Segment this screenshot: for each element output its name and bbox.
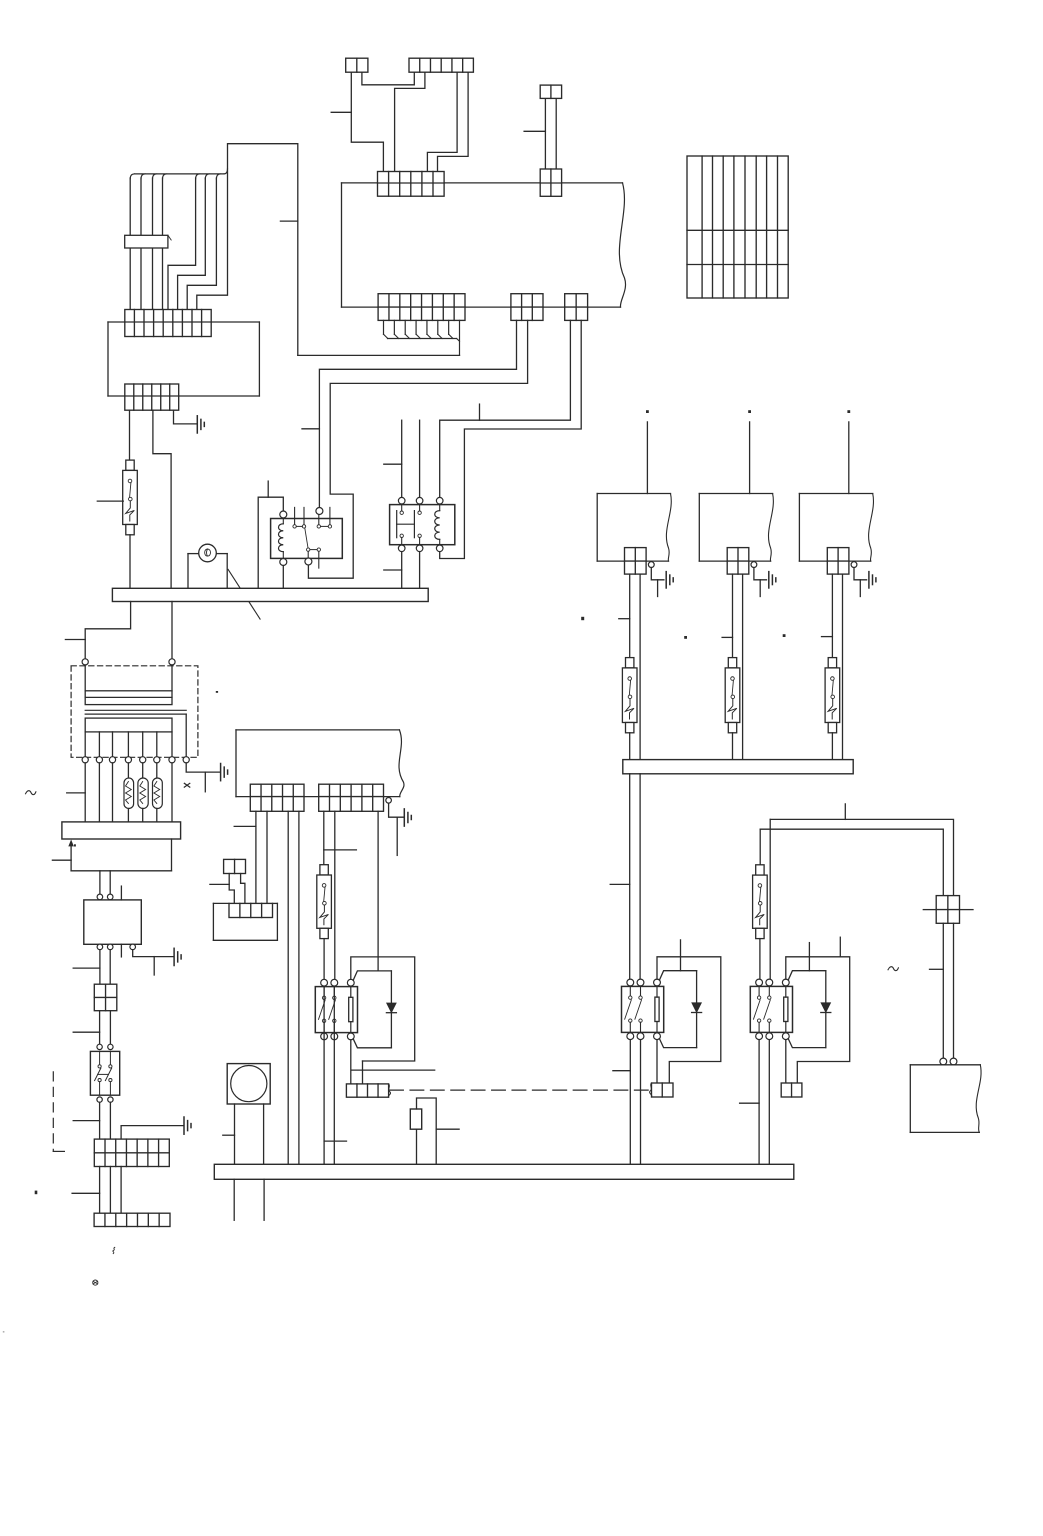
wire <box>351 1040 435 1084</box>
wire stub <box>384 569 402 571</box>
connector J6 (8-pin, 2-row) on U1 bottom <box>378 294 465 321</box>
shield box (dashed) <box>71 666 198 758</box>
wire <box>377 811 379 970</box>
terminal grid block (9x3) <box>687 156 788 298</box>
connector J1 (2-pin) <box>346 58 368 72</box>
wire <box>99 1011 101 1044</box>
ECU block U1 (torn right edge) <box>342 183 626 307</box>
wire <box>241 874 245 904</box>
wire stub <box>73 1031 99 1033</box>
wire (outer loop) <box>657 957 721 1083</box>
connector J9 (9-pin, 2-row) <box>125 310 211 337</box>
terminal <box>305 558 312 565</box>
ground <box>404 809 411 826</box>
wire <box>109 871 111 894</box>
wire <box>287 811 289 1164</box>
wire <box>427 72 457 171</box>
wire <box>395 72 425 171</box>
wire <box>842 574 844 760</box>
wire <box>324 986 346 1164</box>
fuse F4 <box>725 658 740 733</box>
load module C (torn right edge) <box>799 494 873 562</box>
wire (staircase 3) <box>187 178 216 310</box>
terminal <box>108 1044 113 1049</box>
fuse F2 <box>317 865 332 939</box>
connector (2x2) on module C <box>827 548 849 575</box>
wire to ground <box>754 568 767 597</box>
wire stub <box>722 636 732 638</box>
wire stub <box>331 111 351 113</box>
dot <box>581 617 584 620</box>
wire (fan to bus A) <box>298 354 460 356</box>
resistor R1 <box>124 763 134 822</box>
small mark <box>93 1280 98 1285</box>
connector J21 (2-pin) <box>781 1083 802 1097</box>
wire <box>112 763 114 822</box>
fuse F1 <box>123 460 138 535</box>
wire <box>109 1011 111 1044</box>
module box B3 <box>213 903 277 940</box>
secondary leads <box>85 714 186 757</box>
wire <box>98 763 100 822</box>
transformer T1 core <box>85 710 186 714</box>
wire <box>229 874 234 904</box>
wire <box>848 422 850 494</box>
wire <box>99 871 101 894</box>
wire <box>109 1167 111 1214</box>
wire <box>749 422 751 494</box>
wire <box>639 574 641 760</box>
wire stub <box>233 1179 235 1220</box>
wire <box>640 1040 642 1165</box>
wire (K1 feed) <box>258 481 283 588</box>
wire (fuse F2 feed) <box>324 811 357 864</box>
tilde (AC) mark <box>26 791 36 795</box>
connector J20 (2-pin, torn edge) <box>650 1083 673 1097</box>
wire stub <box>822 636 833 638</box>
wire (staircase 2) <box>178 178 206 310</box>
harness cap <box>130 169 227 180</box>
wire <box>266 811 268 903</box>
connector J15 (6-pin, 2-row) on U2 <box>319 784 384 811</box>
terminal <box>940 1058 947 1065</box>
wire <box>732 574 734 658</box>
terminal <box>130 944 136 950</box>
bus bar A <box>112 588 428 601</box>
ground <box>221 764 228 781</box>
connector J18 (4-pin, torn edge) <box>346 1084 390 1097</box>
tilde (AC) mark <box>888 967 898 971</box>
indicator lamp LP1 <box>188 544 227 588</box>
wire to ground <box>651 568 664 597</box>
bus bar D <box>623 760 853 774</box>
wire <box>171 763 173 822</box>
harness tape band <box>125 235 172 248</box>
regulator box with arrow <box>52 839 171 871</box>
connector J12 (7-pin, 2-row) <box>94 1139 169 1166</box>
connector (2x2) on module B <box>727 548 749 575</box>
dot <box>748 410 751 413</box>
connector J4 (2x2) on U1 top <box>540 169 561 196</box>
harness fan (8 wires) <box>384 320 460 355</box>
squiggle mark <box>113 1247 115 1253</box>
terminal <box>280 511 287 518</box>
wire <box>759 829 761 865</box>
wire <box>639 774 641 979</box>
transformer T1 secondary <box>85 718 172 732</box>
wire to ground <box>186 763 220 792</box>
wire <box>65 602 130 659</box>
wire <box>759 939 761 980</box>
wire <box>555 98 557 169</box>
terminal <box>316 508 323 515</box>
wire <box>768 1040 770 1165</box>
terminal <box>851 562 857 568</box>
connector J2 (6-pin) <box>409 58 473 72</box>
load module A (torn right edge) <box>597 494 671 562</box>
terminal <box>107 894 113 900</box>
wire <box>323 939 325 979</box>
terminal <box>751 562 757 568</box>
wire stub <box>808 943 810 971</box>
wire <box>613 1040 630 1165</box>
terminal <box>436 545 443 552</box>
wire <box>770 819 953 895</box>
terminal <box>97 1097 102 1102</box>
wire <box>785 1040 787 1083</box>
terminal <box>97 1044 102 1049</box>
wire <box>656 1040 658 1083</box>
wire (staircase 1) <box>168 178 196 310</box>
connector J10 (6-pin, 2-row) <box>125 384 179 410</box>
dot <box>684 636 687 639</box>
wire stub <box>120 944 122 957</box>
terminal <box>97 894 103 900</box>
ground <box>769 572 776 588</box>
wire <box>333 986 335 1164</box>
connector J5 (6-pin, 2-row) on U1 top <box>378 172 445 197</box>
wire <box>742 574 744 760</box>
terminal <box>280 559 287 566</box>
wire <box>298 811 300 1164</box>
wire <box>351 72 383 171</box>
connector J16 (2-pin) <box>224 859 246 873</box>
connector J3 (2-pin) <box>540 85 561 98</box>
wire <box>334 811 336 979</box>
wire stub <box>619 618 630 620</box>
fuse F5 <box>825 658 840 733</box>
wire stub <box>479 404 481 420</box>
wire (corner feed to bus A) <box>197 144 298 356</box>
wire <box>282 566 284 589</box>
connector J8 (2-pin, 2-row) on U1 bottom <box>565 294 588 321</box>
wire (to K1 coil) <box>302 320 517 507</box>
wire <box>419 552 421 589</box>
wire <box>416 1129 418 1164</box>
terminal <box>950 1058 957 1065</box>
dashed link <box>390 1089 652 1091</box>
diode D3 loop <box>788 971 831 1048</box>
wire <box>646 422 648 494</box>
connector J17 (4-pin) on B3 <box>229 903 273 917</box>
wire <box>171 602 173 659</box>
wire <box>629 574 631 658</box>
wire <box>99 1167 101 1214</box>
wire <box>417 1098 460 1164</box>
wire to ground <box>133 950 174 975</box>
ground <box>197 416 204 433</box>
wire stub <box>72 1192 100 1194</box>
wire stub <box>680 940 682 971</box>
junction box B1 <box>108 322 259 396</box>
wire stub <box>120 886 122 900</box>
wire bundle (4 left wires) <box>130 178 162 310</box>
wire <box>362 72 414 85</box>
motor M1 <box>223 1064 270 1165</box>
terminal <box>436 497 443 504</box>
wire <box>401 420 403 497</box>
wire to ground <box>121 1126 184 1140</box>
wire (to K1 contact) <box>308 320 527 578</box>
relay K4 <box>622 986 664 1032</box>
ground <box>174 948 181 965</box>
wire (to K2 coil) <box>440 320 571 497</box>
diode D2 loop <box>659 971 701 1048</box>
wire <box>942 923 944 1058</box>
wire <box>610 774 630 979</box>
wire <box>438 72 469 171</box>
wire <box>67 763 86 822</box>
wire (to K2 coil return) <box>440 320 582 558</box>
wire <box>769 819 771 979</box>
load module B (torn right edge) <box>699 494 773 562</box>
terminal <box>648 562 654 568</box>
dot <box>35 1191 38 1195</box>
wire <box>129 535 131 589</box>
wire <box>109 950 111 985</box>
wire stub <box>97 500 123 502</box>
resistor R3 <box>153 763 163 822</box>
bus bar C <box>214 1164 794 1179</box>
wire to ground <box>389 803 404 855</box>
terminal <box>108 1097 113 1102</box>
wire <box>255 811 257 903</box>
faint dot <box>3 1331 5 1333</box>
fuse F3 <box>622 658 637 733</box>
wire <box>419 420 421 497</box>
resistor R2 <box>138 763 148 822</box>
terminal <box>82 659 88 665</box>
terminal <box>107 944 113 950</box>
connector J19 (2x2) <box>923 896 973 924</box>
control block U2 (torn right edge) <box>236 730 404 797</box>
terminal <box>416 545 423 552</box>
ground <box>869 572 876 588</box>
terminal <box>169 659 175 665</box>
terminal <box>398 497 405 504</box>
transformer T1 primary <box>85 665 172 705</box>
fuse F6 <box>753 865 768 939</box>
connector J14 (5-pin, 2-row) on U2 <box>250 784 304 811</box>
relay K1 <box>271 507 343 568</box>
wire <box>544 98 546 169</box>
connector (2x2) on module A <box>625 548 647 575</box>
relay K2 <box>390 505 455 545</box>
switch S1 <box>90 1051 119 1095</box>
module box B2 <box>84 900 142 944</box>
wire stub <box>844 804 846 820</box>
dot <box>646 410 649 413</box>
dot <box>783 634 786 637</box>
wire stub <box>524 130 545 132</box>
wire stub <box>263 1179 265 1220</box>
wire <box>831 733 833 760</box>
wire stub <box>73 1120 99 1122</box>
ground <box>666 572 673 588</box>
wire stub <box>210 883 229 885</box>
wire (outer loop) <box>351 957 415 1084</box>
connector J7 (3-pin, 2-row) on U1 bottom <box>511 294 543 321</box>
connector J11 (2x2) <box>94 984 117 1011</box>
relay K3 <box>315 987 357 1033</box>
wire <box>760 829 943 895</box>
dot <box>847 410 850 413</box>
wire <box>401 552 403 589</box>
wire stub <box>384 463 402 465</box>
wire <box>740 1040 760 1165</box>
wire <box>109 1102 111 1139</box>
wire stub <box>73 967 100 969</box>
wire <box>99 1102 101 1139</box>
x mark <box>184 783 190 787</box>
dot <box>216 691 218 693</box>
dashed boundary <box>53 1072 64 1152</box>
wire <box>153 410 171 588</box>
wire <box>99 950 101 985</box>
connector J13 (7-pin) <box>94 1213 170 1226</box>
leader line <box>228 569 260 619</box>
wire <box>629 733 631 760</box>
wire <box>953 923 955 1058</box>
wire <box>174 410 198 424</box>
wire <box>732 733 734 760</box>
load block N (torn right edge) <box>910 1065 981 1133</box>
ground <box>184 1117 191 1134</box>
wire (outer loop) <box>786 957 850 1083</box>
diode D1 loop <box>353 971 396 1048</box>
wire stub <box>234 825 256 827</box>
wire <box>120 1167 122 1214</box>
terminal <box>416 497 423 504</box>
wire to ground <box>854 568 867 597</box>
sensor S2 <box>410 1109 421 1129</box>
terminal <box>386 798 392 804</box>
terminal <box>97 944 103 950</box>
bus bar B <box>62 822 181 839</box>
wire <box>129 410 131 460</box>
relay K5 <box>750 986 792 1032</box>
wire stub <box>930 968 944 970</box>
terminal <box>398 545 405 552</box>
terminal row <box>82 757 189 763</box>
wire stub <box>839 937 841 957</box>
wire <box>831 574 833 658</box>
